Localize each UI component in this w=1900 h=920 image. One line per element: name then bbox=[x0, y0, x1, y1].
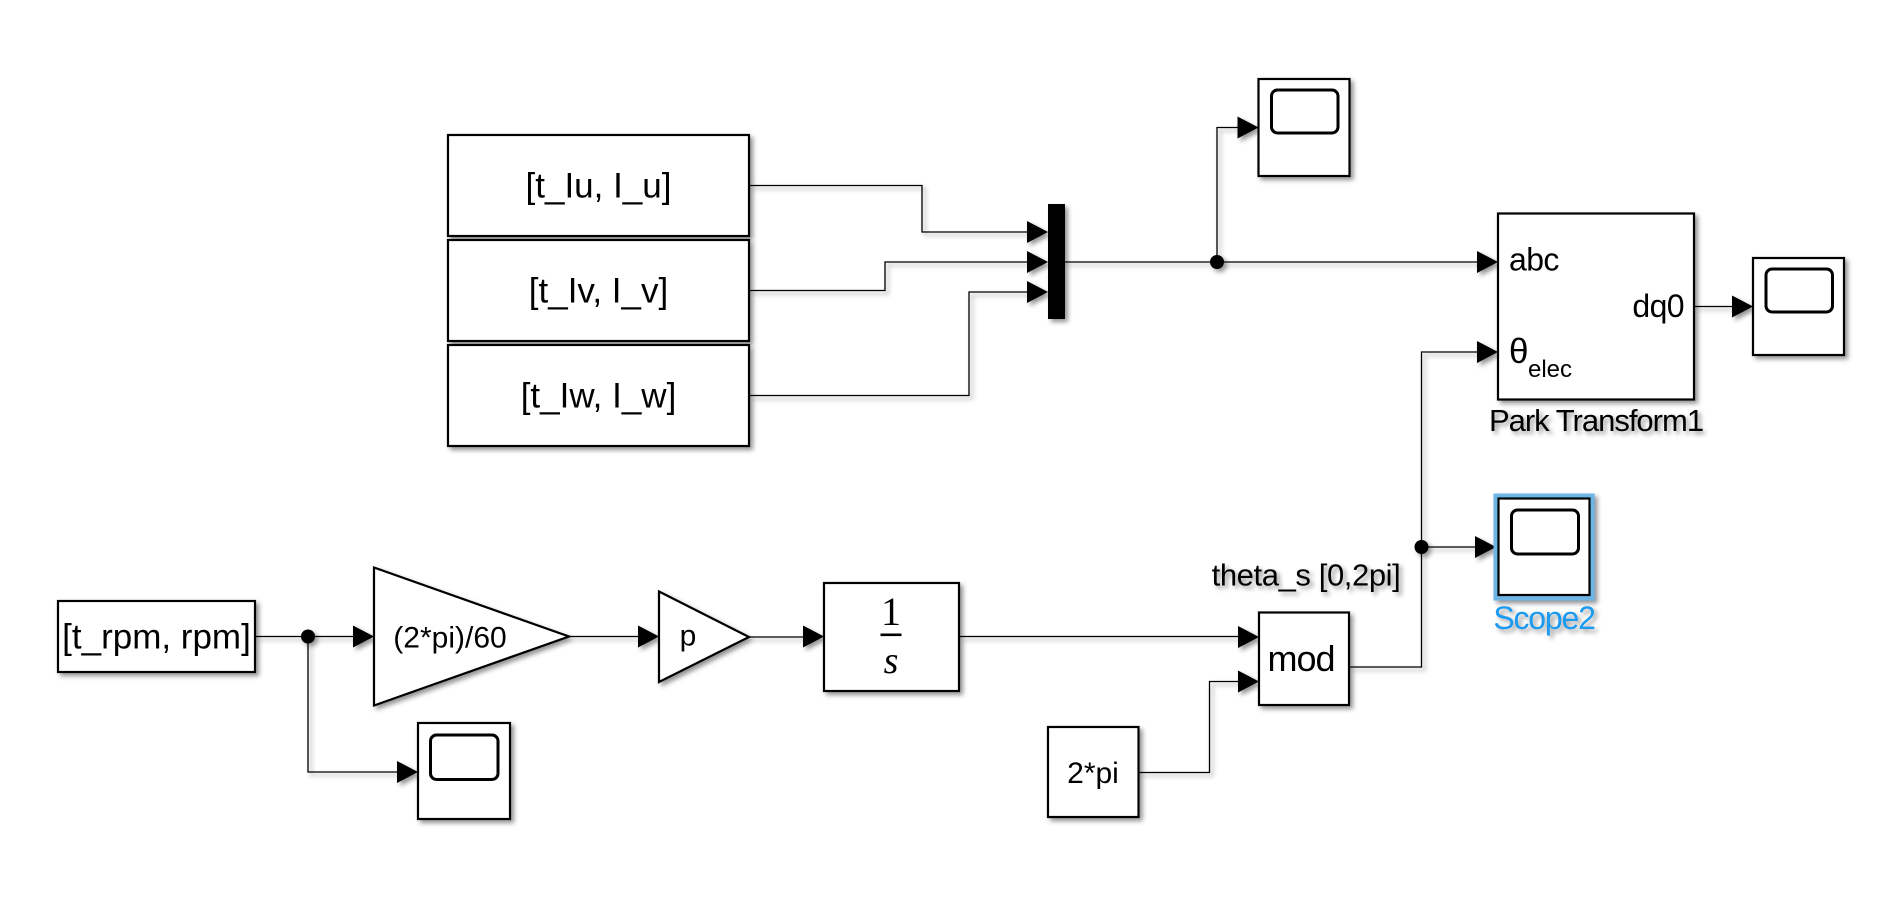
mux block bbox=[1048, 204, 1065, 319]
wire from mux to Park Transform1 abc input bbox=[1065, 251, 1498, 273]
top scope block bbox=[1259, 79, 1350, 176]
svg-text:elec: elec bbox=[1528, 356, 1572, 383]
from-workspace block [t_Iu, I_u] bbox=[448, 135, 749, 236]
junction node on rpm wire bbox=[301, 630, 315, 644]
wire from gain (2*pi)/60 to gain p bbox=[569, 626, 659, 648]
wire from gain p to integrator bbox=[749, 626, 824, 648]
svg-text:(2*pi)/60: (2*pi)/60 bbox=[393, 622, 506, 655]
svg-text:dq0: dq0 bbox=[1632, 288, 1684, 324]
wire from mod up to Park Transform1 theta input bbox=[1349, 341, 1499, 667]
bottom-left scope block bbox=[418, 723, 510, 819]
junction node on theta wire bbox=[1415, 540, 1429, 554]
wire from integrator to mod input 1 bbox=[959, 626, 1259, 648]
wire from [t_Iu, I_u] to mux input 1 bbox=[749, 186, 1048, 244]
wire from junction to Scope2 bbox=[1422, 536, 1497, 558]
wire from [t_Iv, I_v] to mux input 2 bbox=[749, 251, 1048, 291]
from-workspace block [t_Iw, I_w] bbox=[448, 345, 749, 446]
svg-text:theta_s [0,2pi]: theta_s [0,2pi] bbox=[1212, 558, 1401, 593]
svg-text:abc: abc bbox=[1509, 242, 1559, 278]
svg-text:θ: θ bbox=[1509, 332, 1528, 371]
svg-text:s: s bbox=[884, 640, 899, 682]
svg-text:[t_Iv, I_v]: [t_Iv, I_v] bbox=[529, 272, 668, 311]
svg-text:[t_Iw, I_w]: [t_Iw, I_w] bbox=[521, 377, 677, 416]
wire from junction up to top scope bbox=[1217, 117, 1259, 263]
wire from [t_Iw, I_w] to mux input 3 bbox=[749, 281, 1048, 396]
math function block mod bbox=[1259, 613, 1349, 706]
Scope2 selection highlight bbox=[1494, 494, 1595, 601]
junction node on abc wire bbox=[1210, 255, 1224, 269]
gain block p bbox=[659, 592, 749, 683]
svg-text:mod: mod bbox=[1267, 638, 1334, 679]
integrator block 1/s bbox=[824, 583, 959, 691]
svg-text:1: 1 bbox=[881, 589, 901, 634]
right scope block bbox=[1753, 258, 1844, 355]
Park Transform1 subsystem block bbox=[1498, 214, 1694, 400]
wire from 2*pi to mod input 2 bbox=[1139, 671, 1260, 773]
svg-text:p: p bbox=[680, 620, 697, 653]
wire from [t_rpm, rpm] to gain (2*pi)/60 bbox=[255, 626, 374, 648]
Scope2 block bbox=[1499, 499, 1590, 596]
svg-text:Scope2: Scope2 bbox=[1493, 600, 1595, 636]
constant block 2*pi bbox=[1048, 727, 1139, 817]
svg-text:[t_rpm, rpm]: [t_rpm, rpm] bbox=[62, 618, 251, 657]
svg-text:Park Transform1: Park Transform1 bbox=[1489, 403, 1703, 438]
svg-text:[t_Iu, I_u]: [t_Iu, I_u] bbox=[526, 167, 672, 206]
wire from Park Transform1 dq0 to right scope bbox=[1694, 296, 1753, 318]
from-workspace block [t_Iv, I_v] bbox=[448, 240, 749, 341]
svg-text:2*pi: 2*pi bbox=[1067, 757, 1119, 790]
from-workspace block [t_rpm, rpm] bbox=[58, 601, 255, 672]
gain block (2*pi)/60 bbox=[374, 568, 569, 706]
wire from junction down to bottom-left scope bbox=[308, 637, 418, 784]
